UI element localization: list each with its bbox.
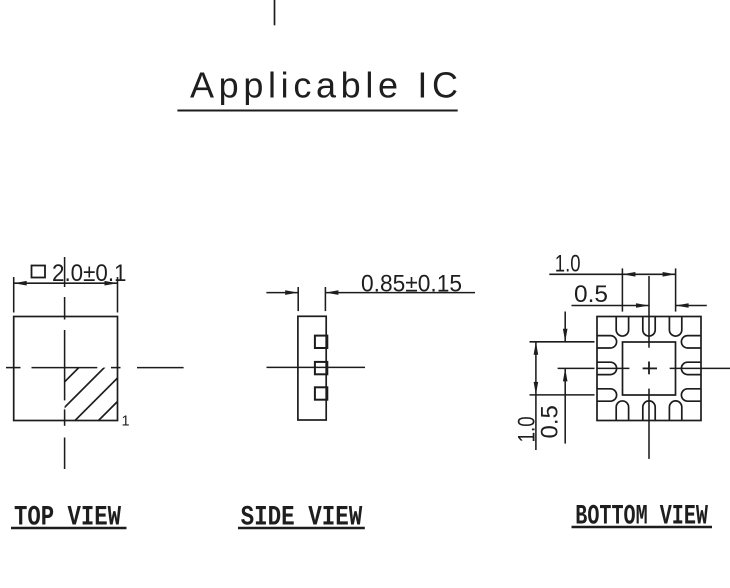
side view pin square 1 [315,336,327,348]
bottom view bottom pads [616,401,682,421]
square symbol [32,266,46,278]
dim 0.5 leader right [676,305,707,307]
top view package square [14,317,118,421]
top view dim arrow left [14,281,27,286]
dim text 2.0+-0.1 [52,260,127,287]
dim 0.5 vertical bottom segment [564,368,566,443]
bottom top dim ext line right [675,268,677,311]
dim text 1.0 (left, rotated) [514,416,541,442]
dim 1.0 line with arrows [622,273,675,275]
svg-text:2.0±0.1: 2.0±0.1 [52,260,127,287]
top view vertical center line [64,257,66,469]
label BOTTOM VIEW [575,502,708,533]
title underline [177,110,457,112]
top view horizontal center line [6,367,184,369]
bottom view horizontal center line [558,367,730,369]
top view dimension line [14,282,118,284]
dim 0.5 arrow (points left) [676,303,689,308]
bottom left dim row line 3 [530,394,595,396]
dim 1.0 vertical line [535,342,537,450]
svg-text:1.0: 1.0 [555,250,581,277]
top view dim arrow right [105,281,118,286]
side view pin square 2 [315,362,327,374]
bottom view vertical center line [648,276,650,459]
top view dim extension line right [117,277,119,313]
side view dim leader right [325,292,475,294]
side view dim arrow left (points right) [285,290,298,295]
label SIDE VIEW underline [238,527,365,529]
bottom top dim ext line left [621,268,623,311]
svg-text:0.5: 0.5 [537,405,564,438]
dim 1.0 leader [549,273,622,275]
label BOTTOM VIEW underline [572,526,713,528]
svg-text:0.85±0.15: 0.85±0.15 [361,271,462,298]
side view dim arrow right (points left) [325,290,338,295]
wire top stub [274,0,276,25]
dim text 0.5 (top) [574,281,608,308]
label SIDE VIEW [241,503,363,534]
bottom view package outline [597,317,701,421]
side view dim extension line right [324,287,326,311]
side view pin square 3 [315,387,327,399]
label TOP VIEW [14,503,121,534]
title Applicable IC [190,65,458,106]
bottom view top pads [616,317,682,337]
side view horizontal center line [267,366,366,368]
side view dim leader left [266,292,298,294]
svg-text:Applicable IC: Applicable IC [190,65,458,106]
dim text 0.5 (left, rotated) [537,405,564,438]
dim text 1.0 (top) [555,250,581,277]
label TOP VIEW underline [11,527,127,529]
bottom view center pad [623,342,676,395]
svg-text:1: 1 [122,414,130,430]
bottom view right pads [681,336,701,402]
pin 1 label [122,414,130,430]
dim text 0.85+-0.15 [361,271,462,298]
dim 0.5 vertical top segment [564,312,566,342]
bottom view left pads [597,336,617,402]
dim 0.5 leader left [572,305,650,307]
top view hatch (pin1 quadrant) [16,360,159,430]
top view dim extension line left [13,277,15,313]
dim 0.5 arrow (points right at center line) [636,303,649,308]
bottom left dim row line 1 [530,341,595,343]
side view body [298,316,326,420]
side view dim extension line left [297,287,299,311]
svg-text:0.5: 0.5 [574,281,608,308]
